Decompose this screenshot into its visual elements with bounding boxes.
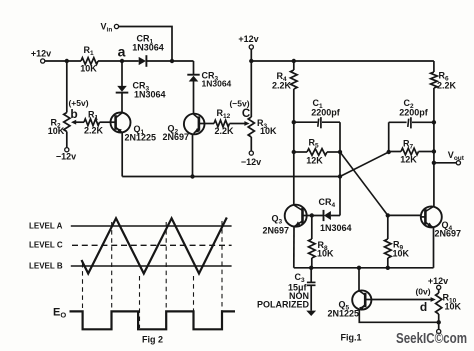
diode CR1 1N3064 — [139, 57, 146, 65]
svg-text:2200pf: 2200pf — [311, 108, 341, 118]
svg-text:10K: 10K — [80, 64, 97, 74]
junction Vin branch — [170, 59, 174, 63]
wire Q3 base to R8/CR4 node — [307, 215, 323, 217]
transistor Q2 2N697 — [184, 114, 205, 135]
wire Q5 emitter down and right — [359, 310, 438, 323]
wire R12 to R3 wiper arrow, node C — [230, 123, 246, 125]
transistor Q5 2N1225 — [352, 290, 371, 309]
svg-text:LEVEL A: LEVEL A — [29, 221, 63, 230]
terminal -12v (left) — [65, 148, 69, 152]
wire Q1 emitter to bottom rail — [121, 133, 123, 177]
svg-text:−12v: −12v — [241, 157, 261, 167]
level C dashed line — [72, 244, 232, 246]
junction R4 top — [292, 59, 296, 63]
svg-text:(+5v): (+5v) — [68, 98, 88, 108]
resistor R5 12K — [294, 151, 307, 153]
svg-text:1N3064: 1N3064 — [320, 223, 352, 233]
level A line — [71, 225, 232, 227]
wire Q2 emitter to rail — [192, 134, 194, 177]
svg-text:−12v: −12v — [56, 152, 76, 162]
transistor Q4 2N697 — [421, 206, 442, 227]
top supply rail — [251, 60, 434, 62]
resistor R7 12K — [389, 151, 401, 153]
flip-flop bottom rail — [294, 267, 434, 269]
cross-coupling diagonal B (X2 to CR4 node) — [340, 152, 389, 177]
svg-text:1N3064: 1N3064 — [132, 43, 164, 53]
left bottom rail — [122, 176, 340, 178]
junction cross node X1 — [338, 150, 342, 154]
resistor R1b 2.2K — [84, 119, 100, 126]
wire R1b to Q1 base — [100, 121, 111, 123]
terminal -12v (mid) — [249, 151, 253, 155]
junction Q5 collector on rail — [357, 266, 361, 270]
junction Vout tap — [432, 161, 436, 165]
wire C2 left down — [388, 122, 390, 152]
svg-text:10K: 10K — [317, 249, 334, 259]
svg-text:10K: 10K — [393, 249, 410, 259]
wire and terminal Vout — [434, 162, 457, 164]
svg-text:Fig.1: Fig.1 — [340, 333, 361, 343]
potentiometer R2 10K — [66, 61, 68, 113]
R2 wiper arrow / node b — [74, 121, 84, 123]
level B line — [71, 265, 232, 267]
resistor R8 10K — [311, 216, 313, 240]
svg-text:2.2K: 2.2K — [272, 81, 292, 91]
svg-text:2N697: 2N697 — [163, 132, 190, 142]
resistor R6 2.2K — [433, 61, 435, 72]
cross-coupling node to Q4 base, R9 top — [386, 213, 390, 217]
wire R1 to node a — [98, 60, 139, 62]
resistor R9 10K — [387, 215, 389, 239]
svg-text:2N697: 2N697 — [435, 229, 462, 239]
square wave Eo — [70, 311, 236, 329]
wire node a down to CR3a — [121, 61, 123, 86]
svg-text:(0v): (0v) — [415, 287, 430, 297]
wire +12v down to R3 — [250, 49, 252, 117]
terminal +12v (mid) — [249, 45, 253, 49]
svg-text:2.2K: 2.2K — [437, 81, 457, 91]
transistor Q1 2N1225 — [111, 113, 131, 133]
node a — [120, 59, 124, 63]
wire Vin over to node, down to CR1 output — [119, 27, 172, 62]
terminal +12v (R10) — [437, 285, 441, 289]
junction Q3 base node — [310, 213, 314, 217]
svg-text:12K: 12K — [400, 155, 417, 165]
wire CR1 to CR3b corner — [146, 60, 193, 62]
capacitor C1 2200pf — [294, 121, 318, 123]
svg-text:2N1225: 2N1225 — [125, 133, 157, 143]
terminal Vin — [114, 24, 118, 28]
svg-text:d: d — [420, 300, 427, 314]
wire Q3 emitter down — [293, 227, 295, 268]
diode CR3b 1N3064 (pointing up) — [193, 61, 195, 75]
wire Q4 emitter down — [433, 228, 435, 268]
node junction at x=66.8 top rail — [65, 59, 69, 63]
terminal R10 bottom — [437, 329, 441, 333]
junction R5 left — [292, 150, 296, 154]
svg-text:2.2K: 2.2K — [214, 126, 234, 136]
vertical C1-right / cross node — [339, 122, 341, 215]
svg-text:POLARIZED: POLARIZED — [257, 300, 310, 310]
wire R4 down to Q3 collector (crosses rail, no dot) — [293, 89, 295, 205]
svg-text:+12v: +12v — [428, 276, 448, 286]
svg-text:2N697: 2N697 — [263, 226, 290, 236]
junction R7 right — [432, 149, 436, 153]
capacitor C3 15uf non polarized — [310, 268, 312, 282]
resistor R12 2.2K — [204, 123, 214, 125]
junction top rail tap — [249, 59, 253, 63]
potentiometer R3 10K — [248, 117, 254, 137]
wire Q5 collector — [358, 268, 360, 291]
wire to Q4 base — [388, 214, 421, 216]
svg-text:10K: 10K — [260, 126, 277, 136]
junction C2 right — [432, 120, 436, 124]
cross-coupling diagonal A (X1 to Q4 base) — [340, 152, 388, 215]
svg-text:2.2K: 2.2K — [84, 126, 104, 136]
junction rail meets X2 branch — [338, 174, 342, 178]
wire Q5 base to R10 wiper — [371, 299, 431, 301]
junction C1 left — [292, 120, 296, 124]
junction R10 bottom — [437, 320, 441, 324]
svg-text:10K: 10K — [445, 302, 462, 312]
svg-text:a: a — [118, 43, 126, 59]
junction R8 bottom / C3 — [309, 266, 313, 270]
junction Q2 emitter on rail — [190, 174, 194, 178]
diode CR3a 1N3064 (pointing down) — [117, 86, 127, 92]
svg-text:1N3064: 1N3064 — [134, 90, 166, 100]
svg-text:1N3064: 1N3064 — [202, 79, 232, 89]
wire +12v to R1 — [45, 60, 81, 62]
ground — [306, 311, 316, 316]
svg-text:(−5v): (−5v) — [229, 99, 249, 109]
svg-text:2200pf: 2200pf — [399, 108, 429, 118]
transistor Q3 2N697 — [285, 205, 307, 227]
svg-text:10K: 10K — [48, 126, 65, 136]
resistor R1 10K — [81, 58, 98, 65]
svg-text:b: b — [70, 107, 77, 121]
svg-text:LEVEL C: LEVEL C — [29, 241, 63, 250]
svg-text:Fig 2: Fig 2 — [142, 335, 163, 345]
svg-text:LEVEL B: LEVEL B — [29, 262, 63, 271]
svg-text:+12v: +12v — [238, 34, 258, 44]
capacitor C2 2200pf — [389, 121, 407, 123]
triangle wave — [82, 218, 227, 274]
junction R9 bottom — [386, 266, 390, 270]
svg-text:+12v: +12v — [31, 49, 51, 59]
wire CR3b to Q2 collector — [193, 82, 195, 115]
svg-text:2N1225: 2N1225 — [328, 309, 360, 319]
resistor R4 2.2K — [293, 61, 295, 70]
junction C2/R7 node — [387, 150, 391, 154]
svg-text:12K: 12K — [306, 156, 323, 166]
svg-text:SeekIC©com: SeekIC©com — [396, 331, 467, 347]
diode CR4 1N3064 (pointing left) — [323, 210, 325, 221]
wire R6 down to Q4 collector — [433, 88, 435, 206]
potentiometer R10 10K — [438, 290, 440, 294]
terminal +12v (left) — [41, 59, 45, 63]
dashed droplines — [82, 263, 84, 328]
wire CR3a to Q1 collector — [121, 93, 123, 113]
